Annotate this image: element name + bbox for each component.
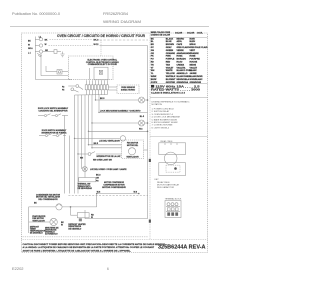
svg-text:VIOLETA: VIOLETA [177, 66, 186, 69]
svg-text:INTERRUPTOR DE LA LUZ: INTERRUPTOR DE LA LUZ [97, 155, 122, 158]
svg-text:POURPRE: POURPRE [190, 59, 201, 61]
svg-text:8. LIGHT SW BK-5: 8. LIGHT SW BK-5 [152, 127, 170, 129]
svg-text:GRIS CLARO: GRIS CLARO [177, 46, 190, 49]
svg-text:W: W [61, 224, 63, 226]
svg-text:MOTEUR COMPRESSEUR: MOTEUR COMPRESSEUR [102, 187, 126, 189]
svg-text:SONDA HORNO: SONDA HORNO [121, 89, 136, 92]
svg-text:DE SEGURIDAD: DE SEGURIDAD [78, 187, 93, 190]
svg-text:BLANC: BLANC [190, 69, 198, 72]
svg-text:LUZ DEL HORNO / OVEN LAMP / LA: LUZ DEL HORNO / OVEN LAMP / LAMPE [90, 168, 127, 171]
svg-text:P5: P5 [62, 90, 64, 92]
svg-text:PURPLE: PURPLE [166, 59, 175, 61]
svg-text:INTERRUPTOR DE PUERTA: INTERRUPTOR DE PUERTA [42, 131, 68, 134]
svg-text:7. CONVECTION FAN: 7. CONVECTION FAN [152, 124, 173, 127]
svg-text:3. OVEN SENSOR P-4: 3. OVEN SENSOR P-4 [152, 114, 174, 116]
svg-text:BLUE: BLUE [166, 41, 172, 43]
svg-text:COMMANDE ELECT. DU FOUR: COMMANDE ELECT. DU FOUR [88, 63, 118, 66]
svg-text:W-8: W-8 [134, 191, 137, 193]
svg-text:MOTOR DEL: MOTOR DEL [127, 145, 139, 147]
svg-text:W-6: W-6 [139, 129, 142, 131]
svg-text:KEY: KEY [155, 179, 160, 181]
svg-text:VERT: VERT [190, 50, 196, 52]
svg-text:TN: TN [151, 64, 154, 66]
svg-text:GREEN: GREEN [166, 50, 174, 52]
svg-text:NOIR: NOIR [190, 38, 196, 40]
svg-text:BK: BK [151, 38, 155, 40]
svg-text:BR: BR [151, 44, 155, 46]
svg-text:VIOLET: VIOLET [190, 67, 198, 69]
svg-text:YELLOW: YELLOW [166, 73, 175, 75]
svg-text:WHITE: WHITE [166, 70, 173, 72]
svg-text:BK-5: BK-5 [100, 98, 104, 100]
svg-text:VENTILADOR: VENTILADOR [126, 156, 139, 159]
svg-text:GRIS PALE CLAIR: GRIS PALE CLAIR [190, 46, 208, 49]
svg-text:Publication No. 00000000-0: Publication No. 00000000-0 [12, 12, 60, 16]
svg-text:1. POWER CORD BK-8: 1. POWER CORD BK-8 [152, 109, 175, 111]
svg-text:W/BK: W/BK [151, 76, 157, 78]
svg-text:BL-5: BL-5 [140, 116, 144, 118]
svg-text:BK/W: BK/W [151, 79, 157, 81]
svg-text:DOOR LOCK SWITCH ASSEMBLY: DOOR LOCK SWITCH ASSEMBLY [38, 107, 69, 110]
svg-text:PU: PU [151, 59, 154, 61]
svg-text:ROSA: ROSA [177, 55, 184, 58]
svg-text:W-12: W-12 [94, 44, 100, 46]
svg-text:CAFE: CAFE [177, 43, 183, 46]
svg-text:ORANGE: ORANGE [190, 52, 200, 55]
svg-text:COLOR: COLOR [187, 33, 195, 35]
svg-text:5. BAKE ELEMENT 3000W: 5. BAKE ELEMENT 3000W [152, 118, 177, 121]
svg-text:WH: WH [151, 70, 155, 72]
svg-text:BK-5: BK-5 [94, 143, 98, 145]
svg-text:325B6244A REV-A: 325B6244A REV-A [158, 244, 206, 250]
svg-text:TERMINAL BLOCK: TERMINAL BLOCK [165, 198, 182, 201]
svg-text:W: W [28, 44, 30, 46]
svg-text:AUTOMATICO: AUTOMATICO [45, 233, 58, 236]
svg-text:BK-8: BK-8 [96, 175, 100, 177]
svg-text:CODIGO DE COLOR: CODIGO DE COLOR [151, 35, 171, 37]
svg-text:BLEU: BLEU [190, 41, 196, 43]
svg-text:4. DOOR LOCK MECHANISM: 4. DOOR LOCK MECHANISM [152, 116, 180, 119]
svg-text:ROJO: ROJO [177, 62, 183, 64]
svg-text:NEGRO/BLA: NEGRO/BLA [177, 78, 190, 81]
svg-text:A LA UNIDAD. LA ETIQUETA DE CA: A LA UNIDAD. LA ETIQUETA DE CABLEADO SE … [23, 246, 155, 249]
svg-text:BEIGE: BEIGE [190, 64, 197, 66]
svg-text:W: W [45, 44, 47, 46]
svg-text:GRAY: GRAY [166, 46, 172, 49]
svg-text:GR A: GR A [28, 47, 33, 50]
svg-text:GN: GN [151, 50, 155, 52]
svg-text:TAN: TAN [166, 63, 171, 66]
svg-text:DEL CONDENSADOR: DEL CONDENSADOR [38, 198, 58, 201]
svg-text:FRS26ZRGB4: FRS26ZRGB4 [103, 12, 128, 16]
svg-text:OVEN CIRCUIT / CIRCUITO DE HOR: OVEN CIRCUIT / CIRCUITO DE HORNO / CIRCU… [57, 34, 145, 38]
svg-text:AMARILLO: AMARILLO [177, 72, 188, 75]
svg-text:RELAY / RELE: RELAY / RELE [161, 140, 174, 143]
svg-text:AVANT DE FAIRE L'ENTRETIEN. L': AVANT DE FAIRE L'ENTRETIEN. L'ETIQUETTE … [23, 250, 132, 253]
svg-text:OR: OR [151, 53, 155, 55]
svg-text:NOIR/BLANC: NOIR/BLANC [190, 78, 204, 81]
svg-text:AZUL: AZUL [177, 40, 183, 43]
svg-text:BK-8: BK-8 [94, 40, 100, 42]
svg-text:LUZ DEL VENTILADOR: LUZ DEL VENTILADOR [99, 140, 120, 143]
svg-text:L1: L1 [39, 37, 41, 39]
svg-text:VERDE: VERDE [177, 50, 185, 52]
svg-text:PINK: PINK [166, 56, 171, 58]
svg-text:P2: P2 [62, 87, 64, 89]
svg-text:CAUTION: DISCONNECT POWER BEFO: CAUTION: DISCONNECT POWER BEFORE SERVICI… [23, 243, 166, 246]
svg-text:COUL: COUL [197, 33, 203, 35]
svg-text:PK: PK [151, 56, 154, 58]
svg-text:RD: RD [151, 62, 155, 64]
svg-text:6. BROIL ELEMENT 4000W: 6. BROIL ELEMENT 4000W [152, 122, 178, 124]
svg-text:W-8: W-8 [97, 191, 100, 193]
svg-text:2. SWITCH RELAY: 2. SWITCH RELAY [152, 110, 170, 113]
svg-text:MORADO: MORADO [177, 58, 187, 61]
svg-text:WHT/BLK: WHT/BLK [166, 76, 176, 78]
svg-text:E2202: E2202 [12, 267, 24, 271]
svg-text:NOTATION: NOTATION [152, 103, 163, 106]
svg-text:NEGRO: NEGRO [177, 38, 185, 40]
svg-text:BLANC/NOIR: BLANC/NOIR [190, 75, 204, 78]
svg-text:LOCK MECHANISM ASSEMBLY / CONJ: LOCK MECHANISM ASSEMBLY / CONJUNTO [100, 109, 141, 112]
svg-text:BROWN: BROWN [166, 44, 175, 46]
svg-text:RUN CAPACITOR: RUN CAPACITOR [157, 186, 175, 189]
svg-text:ROUGE: ROUGE [190, 62, 198, 64]
svg-text:WH OVEN LIGHT SW: WH OVEN LIGHT SW [93, 160, 112, 162]
svg-text:BLACK: BLACK [166, 37, 174, 40]
svg-text:COLOR: COLOR [175, 33, 183, 35]
svg-text:VIOLET: VIOLET [166, 67, 174, 69]
svg-text:ORANGE: ORANGE [166, 52, 176, 55]
svg-text:CLASS B INSULATION 1 2 3: CLASS B INSULATION 1 2 3 [151, 92, 186, 95]
svg-text:RED: RED [166, 62, 171, 64]
svg-text:WIRING DIAGRAM: WIRING DIAGRAM [103, 20, 141, 24]
svg-text:BRUN: BRUN [190, 44, 197, 46]
svg-text:6: 6 [107, 267, 109, 271]
svg-text:BLK/WHT: BLK/WHT [166, 79, 176, 81]
svg-text:ROSE: ROSE [190, 56, 197, 58]
svg-text:DE DESHIELO: DE DESHIELO [68, 228, 81, 230]
svg-text:DE DESHIELO: DE DESHIELO [30, 233, 43, 235]
svg-text:CREMA: CREMA [177, 63, 185, 66]
svg-text:CONJUNTO DEL INTERRUPTOR: CONJUNTO DEL INTERRUPTOR [39, 111, 69, 113]
svg-text:JAUNE: JAUNE [190, 72, 198, 75]
svg-text:RATED WATTS . . . . . 3000: RATED WATTS . . . . . 3000 [151, 88, 201, 91]
svg-text:L 1: L 1 [28, 53, 31, 55]
